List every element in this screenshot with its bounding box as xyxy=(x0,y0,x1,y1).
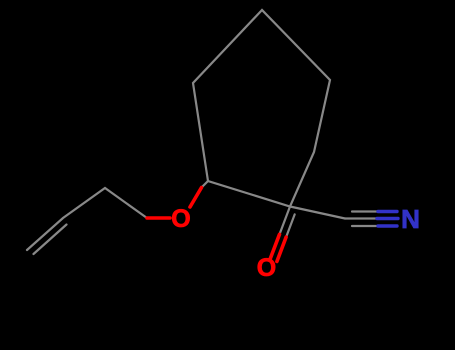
svg-text:O: O xyxy=(171,205,190,233)
svg-text:N: N xyxy=(401,204,420,234)
svg-text:O: O xyxy=(257,254,276,282)
